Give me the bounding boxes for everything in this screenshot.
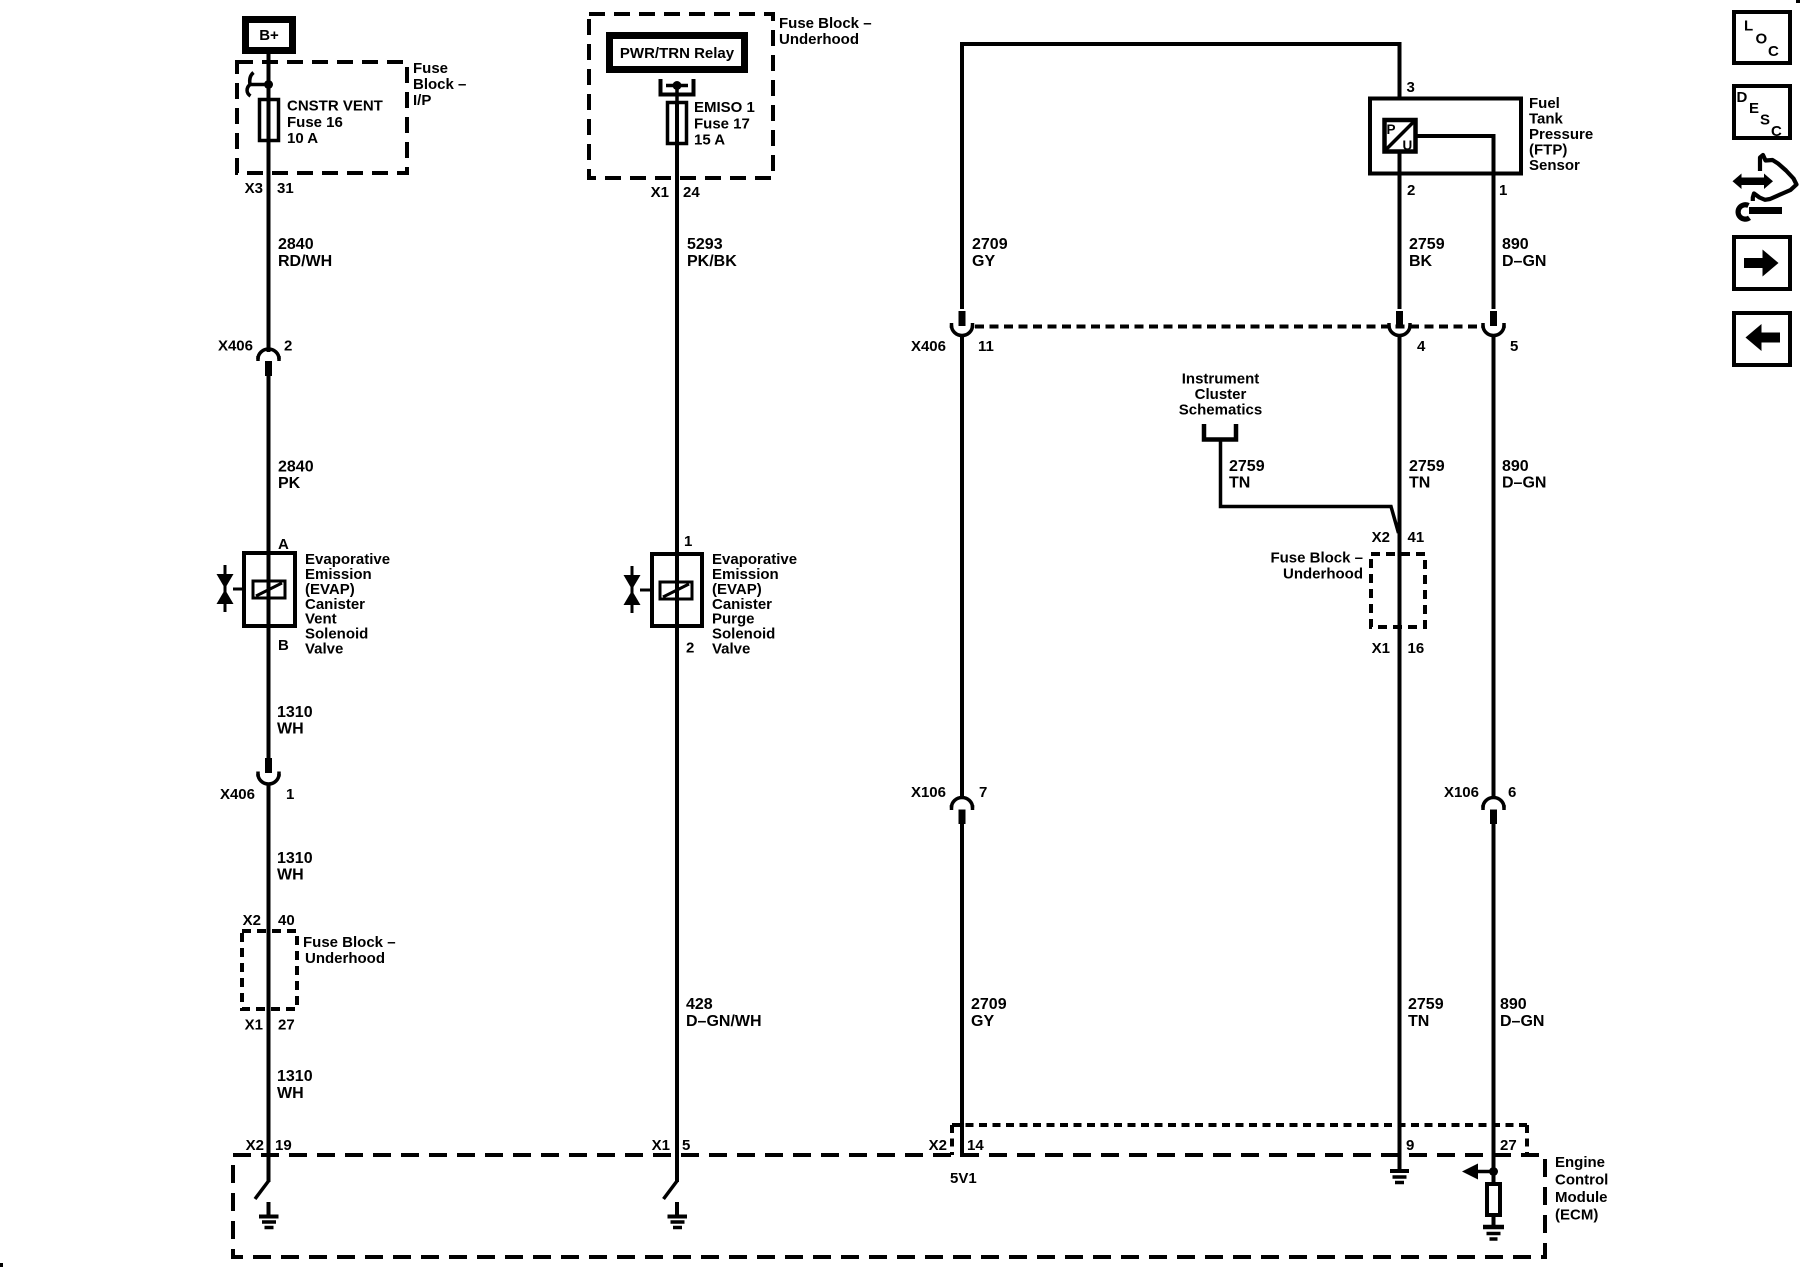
fuse block X1 16 labels xyxy=(1372,640,1425,657)
svg-text:Cluster: Cluster xyxy=(1195,386,1247,403)
svg-text:TN: TN xyxy=(1408,1013,1429,1030)
svg-text:PK/BK: PK/BK xyxy=(687,253,737,270)
svg-text:PWR/TRN Relay: PWR/TRN Relay xyxy=(620,45,735,62)
svg-text:5293: 5293 xyxy=(687,236,723,253)
page corner mark xyxy=(1796,0,1800,3)
forward nav arrow box xyxy=(1734,237,1790,289)
svg-text:Engine: Engine xyxy=(1555,1154,1605,1171)
svg-text:Instrument: Instrument xyxy=(1182,371,1260,388)
ECM X2 14 pin labels xyxy=(929,1137,985,1154)
ECM pin 27 sense arrow xyxy=(1462,1164,1498,1180)
wire 428 D-GN/WH label xyxy=(686,996,762,1030)
DESC nav box xyxy=(1734,86,1790,140)
fuse block I/P label xyxy=(413,60,466,109)
svg-text:6: 6 xyxy=(1508,784,1516,801)
wire 2709 GY label bottom xyxy=(971,996,1007,1030)
EVAP canister vent solenoid valve xyxy=(217,536,296,654)
svg-text:(ECM): (ECM) xyxy=(1555,1207,1598,1224)
svg-text:428: 428 xyxy=(686,996,713,1013)
back nav arrow box xyxy=(1734,313,1790,365)
svg-text:X406: X406 xyxy=(911,338,946,355)
svg-text:PK: PK xyxy=(278,475,301,492)
svg-text:Fuse 17: Fuse 17 xyxy=(694,116,750,133)
ground inside ECM middle xyxy=(668,1202,688,1228)
svg-text:2: 2 xyxy=(284,338,292,355)
wire 2759 BK label xyxy=(1409,236,1445,270)
svg-text:2: 2 xyxy=(1407,182,1415,199)
svg-text:Block –: Block – xyxy=(413,76,466,93)
svg-text:U: U xyxy=(1403,138,1413,153)
wire 2759 TN label bottom xyxy=(1408,996,1444,1030)
svg-text:Sensor: Sensor xyxy=(1529,157,1580,174)
engine control module label xyxy=(1555,1154,1608,1224)
wire X106-6 to ECM pin 27 xyxy=(1492,824,1496,1175)
ECM X1 5 pin labels xyxy=(652,1137,691,1154)
svg-text:WH: WH xyxy=(277,721,304,738)
svg-text:Fuse Block –: Fuse Block – xyxy=(303,934,396,951)
ECM switch at pin 19 xyxy=(255,1181,269,1199)
svg-text:5V1: 5V1 xyxy=(950,1170,977,1187)
svg-text:40: 40 xyxy=(278,912,295,929)
wire B+ down through fuse to connector X406-2 xyxy=(267,54,271,352)
svg-text:Valve: Valve xyxy=(305,641,343,658)
svg-text:WH: WH xyxy=(277,1085,304,1102)
connector X106 pin 6 xyxy=(1444,784,1516,824)
svg-text:1: 1 xyxy=(1499,182,1507,199)
svg-text:Fuel: Fuel xyxy=(1529,95,1560,112)
svg-text:X2: X2 xyxy=(246,1137,264,1154)
LOC nav box xyxy=(1734,12,1790,63)
svg-text:890: 890 xyxy=(1502,236,1529,253)
harness tool icon wrench xyxy=(1738,205,1782,219)
harness tool icon squiggle xyxy=(1753,155,1797,201)
svg-text:890: 890 xyxy=(1502,458,1529,475)
svg-text:2: 2 xyxy=(686,640,694,657)
svg-text:L: L xyxy=(1744,18,1753,35)
ECM X2 19 pin labels xyxy=(246,1137,292,1154)
svg-text:TN: TN xyxy=(1229,475,1250,492)
svg-text:5: 5 xyxy=(1510,338,1518,355)
svg-text:Schematics: Schematics xyxy=(1179,402,1262,419)
svg-text:Fuse Block –: Fuse Block – xyxy=(1270,550,1363,567)
fuse CNSTR VENT Fuse 16 10A xyxy=(260,98,383,148)
svg-text:2840: 2840 xyxy=(278,459,314,476)
svg-text:CNSTR VENT: CNSTR VENT xyxy=(287,98,383,115)
svg-text:RD/WH: RD/WH xyxy=(278,253,332,270)
svg-text:X406: X406 xyxy=(218,338,253,355)
ECM switch at pin 5 xyxy=(664,1181,678,1199)
svg-text:Tank: Tank xyxy=(1529,111,1564,128)
svg-text:31: 31 xyxy=(277,180,294,197)
wire X406-4 down to ECM pin 9 xyxy=(1398,335,1402,1170)
svg-text:2759: 2759 xyxy=(1409,236,1445,253)
wire 5293 PK/BK label xyxy=(687,236,737,270)
page footer dot xyxy=(0,1263,3,1267)
svg-text:GY: GY xyxy=(971,1013,994,1030)
wire solenoid B to connector X406-1 xyxy=(267,628,271,758)
engine control module dashed box xyxy=(233,1155,1545,1257)
connector X1 pin 24 labels xyxy=(651,184,701,201)
svg-text:1310: 1310 xyxy=(277,704,313,721)
fuel tank pressure sensor label xyxy=(1529,95,1593,174)
fuse block X2 41 labels xyxy=(1372,529,1425,546)
svg-text:Fuse Block –: Fuse Block – xyxy=(779,15,872,32)
EVAP canister purge solenoid valve label xyxy=(712,551,797,658)
wire FTP pin 1 down xyxy=(1492,176,1496,310)
svg-text:X1: X1 xyxy=(652,1137,670,1154)
fuse block underhood label top xyxy=(779,15,872,48)
wire top horizontal FTP pin3 feed xyxy=(962,44,1400,309)
connector X406 pin 11 xyxy=(911,311,994,355)
svg-text:O: O xyxy=(1756,31,1768,48)
wire instrument cluster to X2-41 xyxy=(1221,439,1399,533)
ground at ECM pin 9 xyxy=(1390,1171,1409,1183)
svg-text:Fuse: Fuse xyxy=(413,60,448,77)
EVAP canister vent solenoid valve label xyxy=(305,551,390,658)
wire connector to solenoid xyxy=(267,376,271,551)
connector X106 pin 7 xyxy=(911,784,987,824)
connector X406 pin 5 xyxy=(1483,311,1518,355)
wire 2840 RD/WH label xyxy=(278,236,332,270)
svg-text:11: 11 xyxy=(978,338,994,355)
instrument cluster schematics label xyxy=(1179,371,1262,419)
svg-text:1: 1 xyxy=(684,533,692,550)
fuel tank pressure sensor box xyxy=(1370,99,1521,174)
svg-text:14: 14 xyxy=(967,1137,984,1154)
ground inside ECM left xyxy=(259,1202,279,1228)
fuse block underhood pass-through X2 40 labels xyxy=(243,912,295,929)
wire FTP pin 2 down xyxy=(1398,154,1402,310)
svg-text:P: P xyxy=(1387,122,1396,137)
instrument cluster off-page bracket xyxy=(1204,424,1236,440)
wire 1310 WH label 3 xyxy=(277,1068,313,1102)
svg-text:1310: 1310 xyxy=(277,850,313,867)
EVAP canister purge solenoid valve xyxy=(624,533,703,657)
wire 890 D-GN label bottom xyxy=(1500,996,1544,1030)
svg-text:1310: 1310 xyxy=(277,1068,313,1085)
svg-text:X1: X1 xyxy=(245,1017,263,1034)
connector X406 pin 1 xyxy=(220,758,294,803)
wire 890 D-GN label top xyxy=(1502,236,1546,270)
FTP sensor P/U transducer xyxy=(1385,120,1416,153)
connector X406 pin 4 xyxy=(1389,311,1426,355)
wire 2759 TN label mid xyxy=(1409,458,1445,492)
svg-text:890: 890 xyxy=(1500,996,1527,1013)
wire X106-7 to ECM X2-14 xyxy=(960,824,964,1157)
svg-text:16: 16 xyxy=(1408,640,1425,657)
wire 890 D-GN label mid xyxy=(1502,458,1546,492)
svg-text:4: 4 xyxy=(1417,338,1426,355)
wire X406-11 to X106-7 xyxy=(960,335,964,798)
connector X406 pin 2 xyxy=(218,338,292,377)
svg-text:EMISO 1: EMISO 1 xyxy=(694,99,755,116)
svg-text:WH: WH xyxy=(277,867,304,884)
wire 2759 TN label left xyxy=(1229,458,1265,492)
svg-text:X3: X3 xyxy=(245,180,263,197)
svg-text:X1: X1 xyxy=(651,184,669,201)
svg-text:I/P: I/P xyxy=(413,92,431,109)
svg-text:X1: X1 xyxy=(1372,640,1390,657)
svg-text:27: 27 xyxy=(1500,1137,1517,1154)
svg-text:S: S xyxy=(1760,112,1770,129)
svg-text:D–GN: D–GN xyxy=(1502,253,1546,270)
svg-text:X2: X2 xyxy=(1372,529,1390,546)
svg-text:X106: X106 xyxy=(1444,784,1479,801)
svg-text:Fuse 16: Fuse 16 xyxy=(287,114,343,131)
svg-text:10 A: 10 A xyxy=(287,130,318,147)
fuse block I/P dashed box xyxy=(237,62,407,173)
FTP internal wire to pin 1 xyxy=(1418,136,1494,176)
svg-text:B+: B+ xyxy=(259,27,279,44)
svg-text:9: 9 xyxy=(1406,1137,1414,1154)
fuse block underhood X1 27 labels xyxy=(245,1017,295,1034)
fuse block underhood small dashed box xyxy=(242,931,297,1009)
svg-text:19: 19 xyxy=(275,1137,292,1154)
svg-text:C: C xyxy=(1768,43,1779,60)
fuse block underhood dashed box top xyxy=(589,14,773,178)
svg-text:D–GN: D–GN xyxy=(1502,475,1546,492)
connector X406 dashed line xyxy=(975,325,1480,329)
svg-text:5: 5 xyxy=(682,1137,690,1154)
svg-text:C: C xyxy=(1771,123,1782,140)
svg-text:GY: GY xyxy=(972,253,995,270)
svg-text:X2: X2 xyxy=(929,1137,947,1154)
svg-text:X406: X406 xyxy=(220,786,255,803)
svg-text:D: D xyxy=(1737,89,1748,106)
svg-text:7: 7 xyxy=(979,784,987,801)
PWR/TRN Relay box xyxy=(610,36,745,70)
fuse block underhood label left xyxy=(303,934,396,967)
wire 1310 WH label 2 xyxy=(277,850,313,884)
svg-text:27: 27 xyxy=(278,1017,295,1034)
splice hook and junction xyxy=(247,73,273,97)
wire 1310 WH label xyxy=(277,704,313,738)
svg-text:2709: 2709 xyxy=(971,996,1007,1013)
svg-text:24: 24 xyxy=(683,184,700,201)
connector X3 pin 31 label xyxy=(245,180,294,197)
svg-text:2759: 2759 xyxy=(1229,458,1265,475)
svg-text:3: 3 xyxy=(1407,79,1415,96)
svg-text:Valve: Valve xyxy=(712,641,750,658)
svg-text:2840: 2840 xyxy=(278,236,314,253)
fuse EMISO 1 Fuse 17 15A xyxy=(668,99,755,149)
fuse block underhood small dashed box right xyxy=(1371,554,1425,627)
svg-text:41: 41 xyxy=(1408,529,1425,546)
svg-text:D–GN: D–GN xyxy=(1500,1013,1544,1030)
svg-text:Control: Control xyxy=(1555,1172,1608,1189)
wire contact to fuse xyxy=(675,86,679,102)
FTP pin 2 and 1 labels xyxy=(1407,182,1507,199)
svg-text:D–GN/WH: D–GN/WH xyxy=(686,1013,762,1030)
wire X406-5 to X106-6 xyxy=(1492,335,1496,798)
relay contact bracket xyxy=(661,79,694,95)
svg-text:Underhood: Underhood xyxy=(305,950,385,967)
svg-text:X2: X2 xyxy=(243,912,261,929)
svg-text:(FTP): (FTP) xyxy=(1529,142,1567,159)
svg-text:2759: 2759 xyxy=(1409,458,1445,475)
svg-text:Underhood: Underhood xyxy=(779,31,859,48)
svg-text:Pressure: Pressure xyxy=(1529,126,1593,143)
ECM X2 connector strip dotted xyxy=(952,1125,1527,1155)
svg-text:Module: Module xyxy=(1555,1189,1608,1206)
svg-text:BK: BK xyxy=(1409,253,1433,270)
svg-text:1: 1 xyxy=(286,786,294,803)
svg-text:2709: 2709 xyxy=(972,236,1008,253)
wire connector X406-1 to ECM xyxy=(267,785,271,1183)
svg-text:15 A: 15 A xyxy=(694,132,725,149)
battery feed B+ xyxy=(246,20,293,51)
harness tool icon double arrow xyxy=(1733,174,1774,190)
wire 2709 GY label top xyxy=(972,236,1008,270)
svg-text:B: B xyxy=(278,637,289,654)
svg-text:E: E xyxy=(1749,100,1759,117)
wire fuse down to solenoid xyxy=(675,101,679,552)
svg-text:X106: X106 xyxy=(911,784,946,801)
svg-text:TN: TN xyxy=(1409,475,1430,492)
fuse block underhood label right xyxy=(1270,550,1363,583)
ground at ECM pin 27 xyxy=(1483,1227,1504,1239)
svg-text:A: A xyxy=(278,536,289,553)
svg-text:Underhood: Underhood xyxy=(1283,566,1363,583)
wire purge solenoid to ECM xyxy=(675,628,679,1182)
svg-text:2759: 2759 xyxy=(1408,996,1444,1013)
resistor inside ECM xyxy=(1487,1172,1500,1226)
wire 2840 PK label xyxy=(278,459,314,493)
